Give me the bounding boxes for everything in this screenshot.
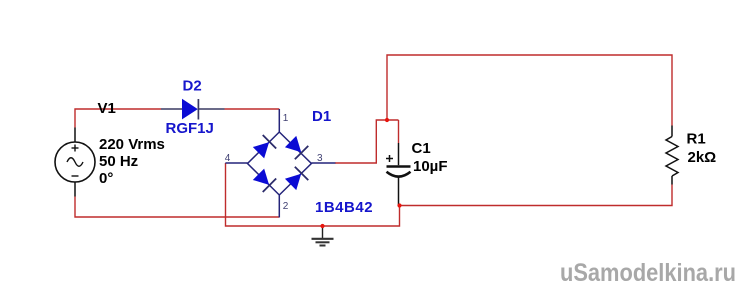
wire V1 top to D2 — [75, 109, 161, 128]
svg-text:0°: 0° — [99, 170, 113, 187]
svg-text:1B4B42: 1B4B42 — [315, 199, 373, 216]
svg-text:10µF: 10µF — [413, 158, 448, 175]
bridge diode bottom-left — [252, 168, 276, 192]
svg-text:1: 1 — [283, 113, 289, 124]
wire R1 bottom to C1 bottom junction — [400, 185, 673, 206]
bridge diode top-left — [252, 135, 276, 159]
wire junction to C1 plus — [398, 120, 400, 143]
wire V1 bottom to bridge pin 2 — [75, 197, 279, 218]
resistor R1 — [666, 126, 678, 185]
svg-text:V1: V1 — [98, 100, 116, 117]
svg-text:R1: R1 — [687, 131, 706, 148]
svg-text:D1: D1 — [312, 108, 331, 125]
wire bridge pin 4 to ground bus — [226, 163, 400, 226]
wire bridge pin 3 to node junction — [335, 120, 399, 163]
svg-text:50 Hz: 50 Hz — [99, 153, 138, 170]
bridge rectifier D1 body — [225, 109, 335, 217]
svg-text:D2: D2 — [183, 78, 202, 95]
junction node at C1 bottom — [397, 203, 401, 207]
bridge diode bottom-right — [284, 167, 308, 191]
capacitor C1 — [386, 143, 411, 206]
svg-text:4: 4 — [225, 153, 231, 164]
svg-text:2kΩ: 2kΩ — [688, 149, 717, 166]
AC source V1 — [55, 128, 95, 197]
svg-text:3: 3 — [317, 153, 323, 164]
bridge diode top-right — [284, 135, 308, 159]
wire D2 to bridge pin 1 — [225, 108, 280, 110]
wire junction to top rail and R1 — [387, 55, 672, 126]
ground — [312, 226, 334, 246]
svg-text:C1: C1 — [412, 140, 431, 157]
svg-text:220 Vrms: 220 Vrms — [99, 136, 165, 153]
junction node at C1 top — [385, 118, 389, 122]
svg-text:RGF1J: RGF1J — [166, 120, 214, 137]
junction node at ground — [320, 224, 324, 228]
svg-text:2: 2 — [283, 201, 289, 212]
svg-text:uSamodelkina.ru: uSamodelkina.ru — [560, 259, 736, 287]
diode D2 — [161, 99, 225, 120]
